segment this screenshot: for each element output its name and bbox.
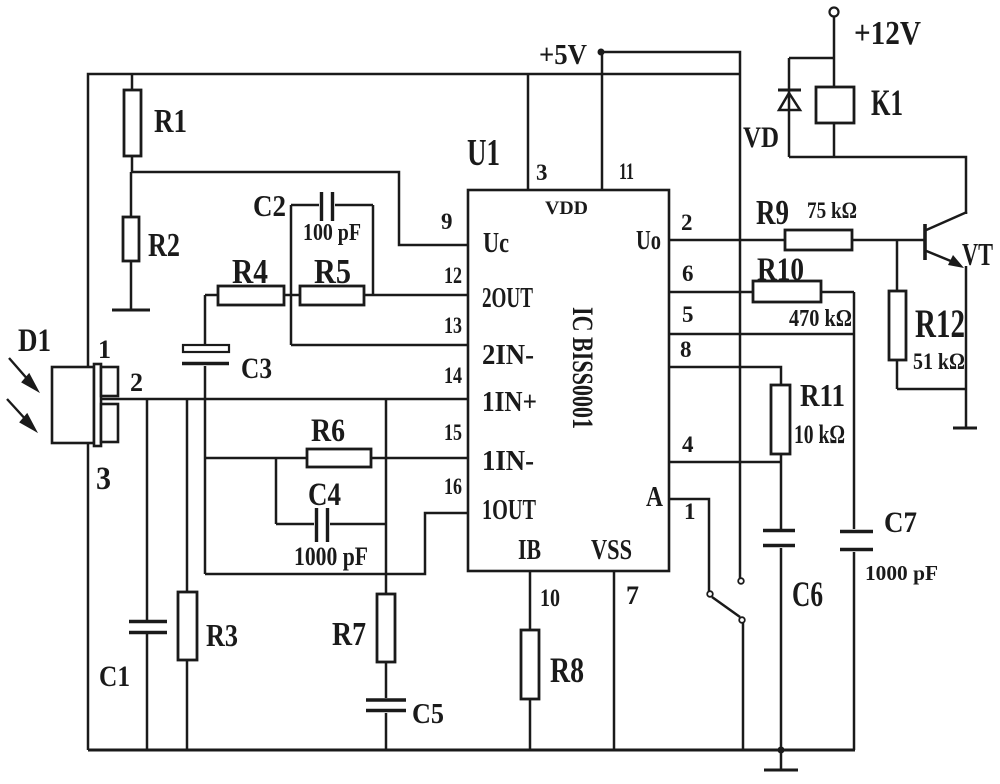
svg-text:C7: C7: [884, 506, 917, 539]
svg-text:D1: D1: [18, 323, 51, 359]
svg-text:C4: C4: [308, 477, 341, 513]
svg-text:R2: R2: [148, 227, 180, 264]
svg-text:R5: R5: [314, 252, 351, 291]
svg-text:14: 14: [444, 363, 462, 388]
svg-text:11: 11: [619, 159, 634, 184]
svg-text:1: 1: [684, 499, 696, 524]
svg-text:C5: C5: [412, 699, 444, 730]
svg-text:C2: C2: [253, 188, 286, 223]
svg-text:2IN-: 2IN-: [482, 339, 534, 371]
svg-text:10 kΩ: 10 kΩ: [794, 420, 845, 449]
svg-text:R7: R7: [332, 616, 366, 653]
svg-text:R11: R11: [800, 377, 845, 413]
svg-text:R4: R4: [232, 252, 268, 291]
svg-text:7: 7: [626, 581, 639, 610]
svg-text:13: 13: [444, 313, 462, 338]
svg-text:R8: R8: [550, 650, 584, 690]
svg-text:5: 5: [682, 302, 694, 327]
svg-text:1000 pF: 1000 pF: [865, 561, 938, 585]
svg-text:+5V: +5V: [539, 40, 587, 71]
svg-text:51 kΩ: 51 kΩ: [913, 349, 965, 374]
svg-text:R3: R3: [206, 617, 238, 653]
svg-text:2OUT: 2OUT: [482, 282, 533, 314]
svg-text:IC BISS0001: IC BISS0001: [566, 307, 599, 429]
svg-text:R1: R1: [154, 103, 187, 140]
svg-text:Uc: Uc: [483, 227, 509, 259]
svg-text:R12: R12: [915, 301, 965, 346]
svg-text:8: 8: [680, 337, 692, 362]
svg-text:9: 9: [441, 209, 453, 234]
svg-text:VD: VD: [743, 121, 779, 154]
svg-text:2: 2: [681, 210, 693, 235]
svg-text:+12V: +12V: [854, 15, 921, 52]
svg-text:K1: K1: [871, 83, 903, 124]
svg-text:1000 pF: 1000 pF: [294, 542, 368, 571]
svg-text:1: 1: [98, 335, 111, 364]
svg-text:6: 6: [682, 261, 694, 286]
svg-text:R6: R6: [311, 413, 345, 449]
svg-text:10: 10: [540, 585, 560, 612]
svg-text:1IN+: 1IN+: [482, 386, 537, 418]
svg-text:2: 2: [130, 368, 143, 397]
svg-text:1OUT: 1OUT: [482, 494, 536, 526]
svg-text:IB: IB: [518, 534, 541, 566]
svg-text:R9: R9: [756, 193, 789, 232]
svg-text:3: 3: [96, 461, 111, 497]
svg-text:15: 15: [444, 420, 462, 445]
svg-text:75 kΩ: 75 kΩ: [807, 198, 857, 223]
svg-text:C1: C1: [99, 660, 130, 693]
svg-text:3: 3: [536, 160, 548, 185]
svg-text:VSS: VSS: [591, 534, 632, 566]
svg-text:R10: R10: [757, 252, 804, 288]
svg-text:100 pF: 100 pF: [303, 220, 361, 246]
svg-text:U1: U1: [467, 132, 500, 174]
svg-text:Uo: Uo: [636, 225, 661, 255]
svg-text:VDD: VDD: [545, 198, 588, 219]
svg-text:C3: C3: [241, 352, 272, 385]
svg-text:470 kΩ: 470 kΩ: [789, 306, 852, 332]
svg-text:VT: VT: [962, 236, 993, 272]
svg-text:1IN-: 1IN-: [482, 445, 534, 477]
svg-text:C6: C6: [792, 574, 823, 614]
svg-text:16: 16: [444, 474, 462, 499]
svg-text:12: 12: [444, 263, 462, 288]
svg-text:A: A: [646, 482, 664, 513]
svg-text:4: 4: [682, 432, 694, 457]
